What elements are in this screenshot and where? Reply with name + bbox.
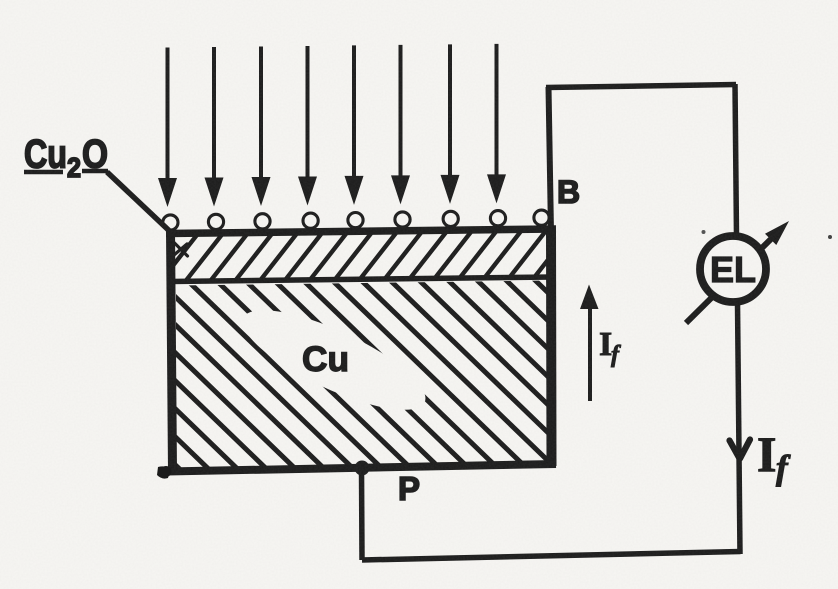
wire: right vertical upper (735, 84, 737, 236)
P junction dot (355, 461, 370, 476)
light ray arrow 4 (298, 46, 317, 206)
Cu2O thin layer hatch (150, 225, 600, 295)
surface contact circle 6 (395, 212, 410, 227)
scan specks (828, 235, 832, 239)
surface contact circle 2 (208, 214, 223, 229)
light ray arrow 1 (158, 48, 177, 208)
bottom-left corner ink blob (161, 466, 172, 477)
EL meter circle (700, 236, 766, 302)
EL meter arrowhead (765, 221, 789, 245)
If up arrow (inside loop) (588, 306, 592, 401)
EL meter adjustment arrow (686, 238, 772, 323)
light ray arrow 3 (252, 47, 271, 207)
surface contact circle 1 (163, 215, 178, 230)
light ray arrow 8 (487, 44, 506, 204)
surface contact circle 7 (443, 211, 458, 226)
wire: top horizontal (546, 85, 736, 88)
wire: bottom horizontal (362, 552, 741, 561)
surface contact circle 4 (303, 213, 318, 228)
light ray arrow 7 (441, 44, 460, 204)
light ray arrow 6 (391, 45, 410, 205)
light ray arrow 5 (345, 45, 364, 205)
electrode box: right edge (546, 229, 557, 466)
wire: right vertical lower (738, 303, 741, 554)
wire: left vertical from B up (549, 87, 552, 232)
Cu2O label (24, 133, 108, 184)
light ray arrow 2 (205, 47, 224, 207)
electrode box: top edge (166, 229, 556, 234)
electrode box: divider line between Cu2O layer and Cu (170, 277, 553, 282)
electrode box: left edge (171, 230, 173, 471)
wire: drop from P junction (359, 468, 365, 560)
Cu2O underline left segment (24, 170, 63, 175)
Cu2O underline right segment (82, 169, 108, 174)
If down arrow on right wire (chevron) (730, 440, 751, 459)
If label right (757, 426, 791, 487)
white gap band around Cu label (231, 291, 437, 428)
If label middle (599, 326, 621, 368)
surface contact circle 9 (534, 210, 549, 225)
electrode box: bottom edge (167, 464, 556, 472)
leader line from Cu2O label to layer (107, 172, 170, 231)
surface contact circle 3 (255, 214, 270, 229)
If up arrowhead (580, 285, 599, 310)
x defect mark on layer (174, 243, 188, 256)
surface contact circle 8 (490, 211, 505, 226)
surface contact circle 5 (348, 213, 363, 228)
Cu substrate hatch (0, 266, 746, 484)
